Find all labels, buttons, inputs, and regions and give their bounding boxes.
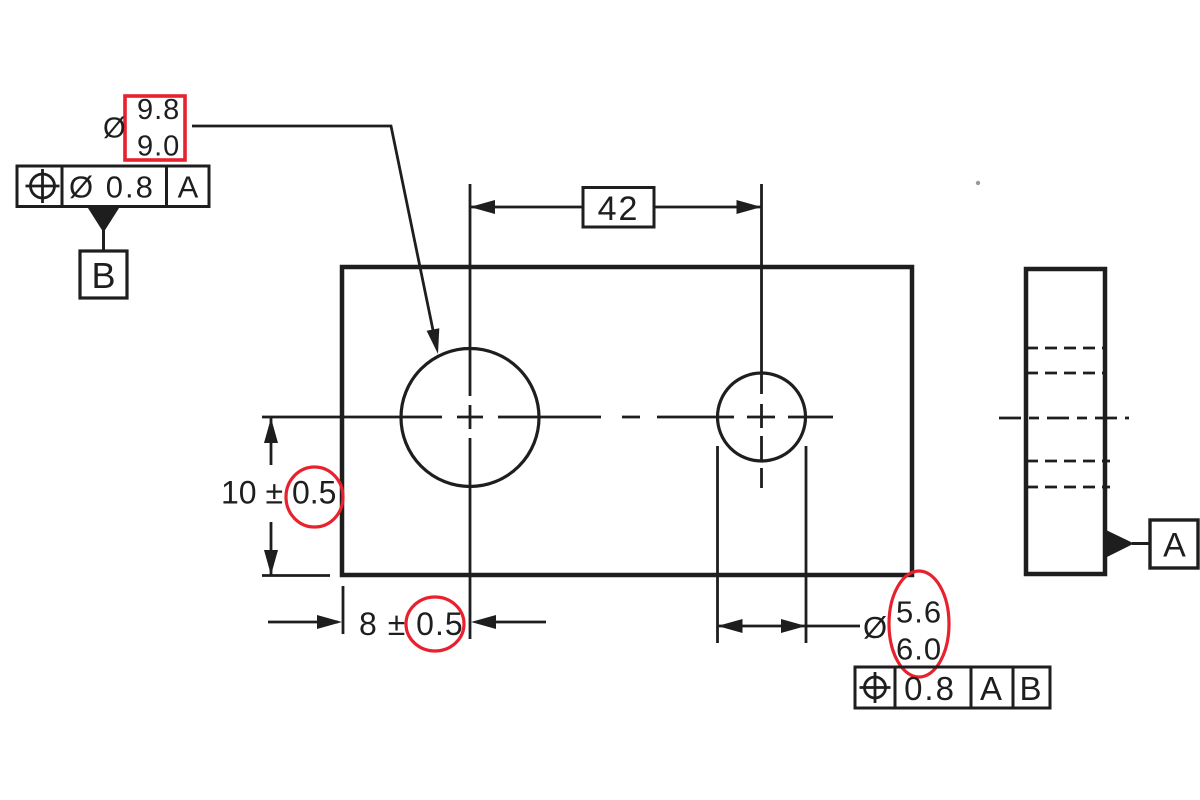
svg-text:8 ± 0.5: 8 ± 0.5 xyxy=(359,606,464,642)
svg-text:6.0: 6.0 xyxy=(896,632,942,667)
side view hidden hole lines xyxy=(1026,348,1110,487)
datum A box xyxy=(1150,520,1198,568)
svg-text:9.0: 9.0 xyxy=(137,131,180,163)
svg-text:10 ± 0.5: 10 ± 0.5 xyxy=(221,475,336,511)
small hole vertical centerline xyxy=(760,184,763,488)
dimension 8 arrows and extension line xyxy=(268,586,546,634)
big hole circle xyxy=(401,349,539,487)
svg-text:0.8: 0.8 xyxy=(904,670,956,707)
svg-text:A: A xyxy=(980,670,1004,707)
diameter 9.8/9.0 label xyxy=(103,94,180,163)
datum B feature triangle xyxy=(87,207,120,253)
red box around 9.8/9.0 xyxy=(125,96,185,160)
svg-text:Ø: Ø xyxy=(863,610,887,645)
datum B box xyxy=(80,251,127,298)
datum A feature triangle on side view xyxy=(1105,530,1151,559)
small hole diameter dimension arrows xyxy=(718,619,861,633)
red ellipse highlight on 5.6/6.0 xyxy=(889,571,949,677)
svg-text:9.8: 9.8 xyxy=(137,94,180,126)
dimension 8 label xyxy=(359,606,464,642)
svg-text:A: A xyxy=(178,170,199,205)
top-left feature control frame xyxy=(17,166,209,207)
svg-text:B: B xyxy=(1019,670,1043,707)
bottom feature control frame xyxy=(855,667,1050,708)
svg-text:A: A xyxy=(1163,527,1186,565)
side view horizontal centerline xyxy=(999,417,1129,420)
svg-text:42: 42 xyxy=(598,190,640,228)
small hole diameter label xyxy=(863,595,942,667)
small hole diameter extension lines xyxy=(718,446,807,643)
red ellipse highlight on 8 tolerance xyxy=(406,597,464,651)
dimension 42 line and arrows xyxy=(470,200,762,214)
stray small dot artifact xyxy=(976,181,980,185)
red circle highlight on 10 tolerance xyxy=(286,467,343,527)
small hole circle xyxy=(718,373,806,461)
leader line from 9.8/9.0 to big hole xyxy=(192,126,439,354)
bottom FCF labels xyxy=(904,670,1043,707)
horizontal centerline through both holes xyxy=(262,416,833,419)
dimension 10 label xyxy=(221,475,336,511)
bottom FCF position symbol xyxy=(860,672,891,703)
svg-text:B: B xyxy=(91,255,115,296)
big hole vertical centerline xyxy=(469,184,472,639)
front view part outline xyxy=(342,267,912,575)
side view outline xyxy=(1026,269,1105,574)
top FCF labels xyxy=(69,170,199,205)
dimension 10 vertical line and arrows xyxy=(262,418,330,576)
top FCF position symbol xyxy=(26,169,60,203)
svg-text:Ø 0.8: Ø 0.8 xyxy=(69,170,155,205)
svg-text:5.6: 5.6 xyxy=(896,595,942,630)
dimension 42 box and label xyxy=(583,188,654,229)
svg-text:Ø: Ø xyxy=(103,113,126,145)
